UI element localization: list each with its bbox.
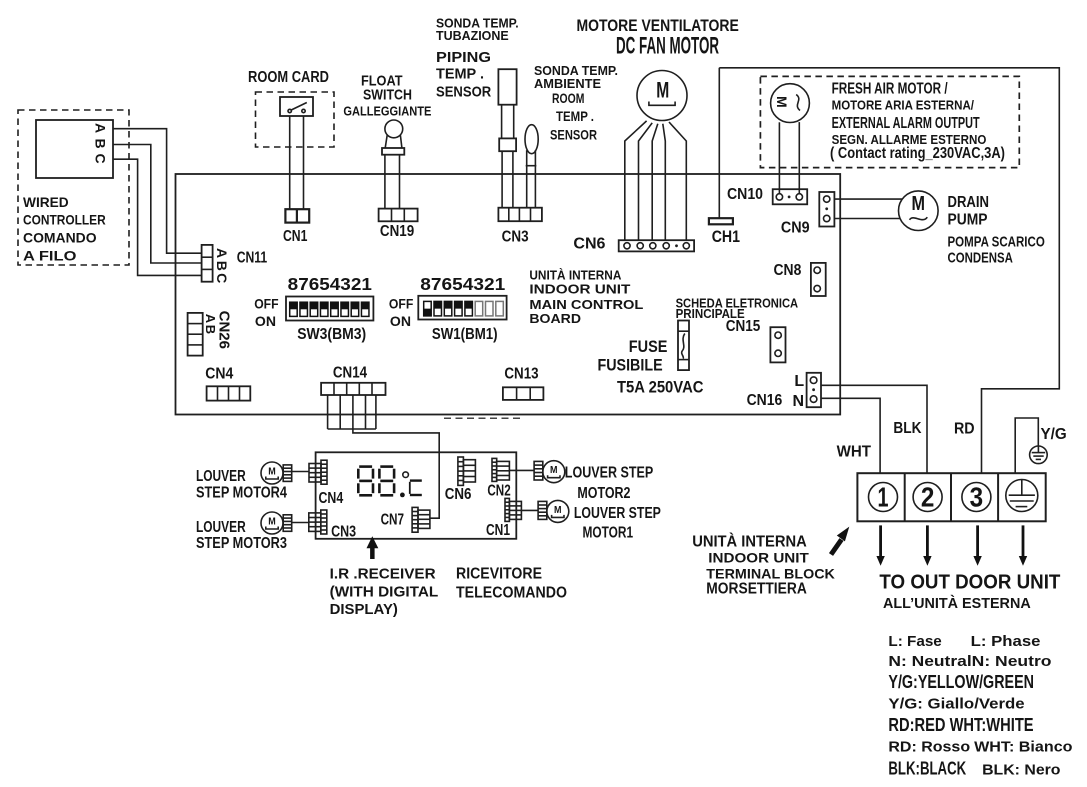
pin label A (controller): [92, 123, 108, 133]
svg-text:RICEVITORE: RICEVITORE: [456, 565, 542, 582]
svg-text:CN13: CN13: [504, 365, 538, 382]
svg-text:CONTROLLER: CONTROLLER: [23, 212, 106, 228]
degree symbol: [403, 472, 409, 478]
svg-text:FUSIBILE: FUSIBILE: [598, 357, 663, 375]
svg-text:A: A: [92, 123, 108, 133]
svg-text:PUMP: PUMP: [948, 212, 988, 229]
svg-text:UNITÀ INTERNA: UNITÀ INTERNA: [529, 268, 622, 283]
svg-text:CN1: CN1: [486, 522, 510, 539]
svg-text:(WITH DIGITAL: (WITH DIGITAL: [330, 583, 439, 600]
wire room sensor left to CN3: [526, 150, 528, 208]
connector CN19: [379, 209, 418, 222]
wire piping sensor right to CN3: [512, 151, 514, 208]
svg-text:AMBIENTE: AMBIENTE: [534, 76, 601, 91]
label CN4 (main board): [205, 366, 233, 383]
label WHT: [837, 443, 872, 460]
label I.R. RECEIVER (WITH DIGITAL DISPLAY): [330, 566, 439, 619]
svg-text:C: C: [92, 153, 108, 163]
label 87654321 (SW3): [288, 274, 372, 294]
label LOUVER STEP MOTOR3: [196, 519, 287, 552]
label ROOM CARD: [248, 69, 329, 86]
pin label B (CN11): [214, 261, 230, 271]
connector CN4 (display): [309, 460, 327, 484]
svg-text:BOARD: BOARD: [529, 311, 581, 326]
svg-text:CN4: CN4: [319, 490, 344, 507]
svg-text:CN6: CN6: [573, 236, 605, 253]
svg-text:3: 3: [970, 482, 984, 513]
svg-text:INDOOR UNIT: INDOOR UNIT: [708, 550, 809, 566]
label CN7: [381, 512, 404, 529]
svg-text:B: B: [92, 138, 108, 148]
svg-text:N: N: [793, 393, 805, 410]
svg-text:BLK: Nero: BLK: Nero: [982, 762, 1060, 779]
terminal 3: [962, 482, 991, 513]
switch contacts: [288, 103, 307, 113]
svg-text:CN19: CN19: [380, 223, 414, 240]
pin label C (CN11): [214, 273, 230, 283]
louver motor 3 comb: [283, 515, 292, 532]
svg-text:CN11: CN11: [237, 249, 268, 266]
ir receiver arrow: [367, 536, 379, 559]
wire C controller to CN11: [113, 159, 202, 275]
label ALL'UNITA ESTERNA: [883, 595, 1031, 612]
connector CN3: [498, 208, 542, 222]
connector CN9: [819, 192, 834, 227]
svg-text:SW1(BM1): SW1(BM1): [432, 326, 498, 343]
wire fan motor 4: [663, 124, 666, 241]
pin label C (controller): [92, 153, 108, 163]
svg-text:SENSOR: SENSOR: [436, 84, 491, 101]
connector CN14 lower comb: [328, 395, 376, 429]
label FUSE FUSIBILE T5A 250VAC: [598, 338, 704, 397]
label LOUVER STEP MOTOR4: [196, 468, 287, 502]
board label SCHEDA ELETRONICA PRINCIPALE: [676, 297, 799, 321]
dashed segment on board bottom edge: [444, 417, 522, 419]
legend Y/G Giallo/Verde: [888, 695, 1024, 712]
label SW3(BM3): [297, 326, 366, 343]
seven segment digit 2: [378, 465, 395, 496]
svg-text:87654321: 87654321: [288, 274, 372, 294]
thick pointer arrow to terminal block: [831, 527, 849, 555]
label BLK: [893, 420, 921, 437]
label CN14: [333, 364, 367, 381]
terminal 2: [913, 482, 942, 513]
svg-text:MOTOR2: MOTOR2: [577, 485, 630, 502]
louver step motor 3 circle: [261, 512, 283, 534]
label CN6 (main board): [573, 236, 605, 253]
louver step motor 2 circle: [543, 461, 565, 483]
svg-text:EXTERNAL ALARM OUTPUT: EXTERNAL ALARM OUTPUT: [832, 115, 980, 132]
svg-text:M: M: [912, 193, 926, 215]
label TO OUT DOOR UNIT: [879, 572, 1060, 594]
connector CN1: [285, 209, 309, 222]
wire float switch left to CN19: [384, 155, 386, 209]
legend L Fase / L Phase: [888, 633, 1040, 650]
svg-text:OFF: OFF: [254, 296, 279, 312]
terminal block outline: [857, 473, 1045, 521]
svg-text:STEP MOTOR4: STEP MOTOR4: [196, 485, 287, 502]
svg-text:ROOM: ROOM: [552, 90, 584, 106]
label FLOAT SWITCH GALLEGGIANTE: [343, 73, 431, 119]
label SONDA TEMP. TUBAZIONE PIPING TEMP. SENSOR: [436, 16, 519, 101]
label CN19: [380, 223, 414, 240]
svg-text:T5A 250VAC: T5A 250VAC: [617, 378, 704, 397]
svg-text:COMANDO: COMANDO: [23, 230, 97, 246]
arrow below terminal earth: [1019, 525, 1027, 565]
connector CN14: [321, 383, 385, 395]
arrow below terminal 2: [923, 525, 931, 565]
svg-text:INDOOR UNIT: INDOOR UNIT: [529, 282, 630, 297]
dip switch SW3(BM3): [286, 297, 373, 321]
svg-text:2: 2: [921, 482, 935, 513]
svg-text:ON: ON: [390, 313, 411, 329]
label CN1: [283, 228, 307, 245]
svg-text:TEMP .: TEMP .: [436, 66, 484, 83]
svg-text:CN3: CN3: [502, 229, 529, 246]
arrow below terminal 3: [973, 525, 981, 565]
svg-text:N: Neutral: N: Neutral: [888, 653, 971, 670]
legend N Neutral / N Neutro: [888, 653, 1051, 670]
svg-text:TO OUT DOOR UNIT: TO OUT DOOR UNIT: [879, 572, 1060, 594]
pin label N (CN16): [793, 393, 805, 410]
wired controller dashed box: [18, 110, 129, 265]
svg-text:DRAIN: DRAIN: [948, 194, 990, 211]
svg-text:CN15: CN15: [726, 318, 761, 335]
svg-text:FRESH AIR MOTOR /: FRESH AIR MOTOR /: [832, 81, 948, 98]
label CN6 (display): [445, 486, 472, 503]
svg-text:CN14: CN14: [333, 364, 367, 381]
label CN3 (display): [331, 523, 356, 540]
svg-text:SWITCH: SWITCH: [363, 87, 412, 104]
svg-text:L: L: [794, 373, 804, 390]
fuse symbol: [678, 321, 689, 371]
wire CN9 top to drain pump: [834, 198, 902, 200]
decimal dot: [400, 493, 405, 498]
wire B controller to CN11: [113, 145, 202, 264]
svg-text:M: M: [774, 96, 790, 108]
svg-text:BLK: BLK: [893, 420, 921, 437]
connector CN2 (display): [492, 458, 509, 481]
dc fan motor circle M: [637, 71, 687, 121]
louver motor 2 comb: [534, 461, 543, 480]
svg-text:ROOM CARD: ROOM CARD: [248, 69, 329, 86]
wire RD path to terminal 3: [719, 68, 1059, 473]
svg-text:I.R .RECEIVER: I.R .RECEIVER: [330, 566, 436, 583]
label CN10: [727, 186, 763, 203]
wire fan motor 2: [639, 123, 653, 240]
drain pump motor circle: [899, 191, 939, 231]
louver motor 4 comb: [283, 465, 292, 482]
connector CN8: [811, 263, 826, 296]
wire motor3 to CN3: [292, 522, 309, 524]
piping sensor collar: [499, 138, 516, 151]
label FRESH AIR MOTOR texts: [830, 81, 1005, 163]
legend RD RED WHT WHITE: [888, 715, 1033, 735]
svg-text:CN2: CN2: [487, 483, 510, 500]
label CN1 (display): [486, 522, 510, 539]
svg-text:ON: ON: [255, 313, 276, 329]
svg-text:M: M: [554, 504, 562, 516]
wire fresh air motor right to CN10: [798, 122, 800, 194]
wire L (BLK) to terminal 2: [821, 385, 927, 473]
label POMPA SCARICO CONDENSA: [948, 233, 1046, 266]
svg-text:RD: RD: [954, 421, 975, 438]
wire CN2 to motor2: [509, 469, 534, 471]
label CN16: [747, 392, 783, 409]
wire piping sensor left to CN3: [501, 151, 503, 208]
svg-text:CN26: CN26: [216, 311, 233, 349]
label UNITA INTERNA INDOOR UNIT TERMINAL BLOCK MORSETTIERA: [692, 534, 835, 598]
pin label A (CN11): [214, 248, 230, 258]
svg-text:CH1: CH1: [712, 227, 740, 246]
connector CN3 (display): [309, 510, 327, 534]
connector CN11: [202, 245, 213, 282]
svg-text:A: A: [214, 248, 230, 258]
wire CN1 to motor1: [521, 509, 538, 511]
indoor unit main control board outline: [176, 174, 841, 415]
svg-text:WIRED: WIRED: [23, 194, 69, 210]
connector CN1 (display): [505, 498, 521, 521]
segment letter C: [410, 481, 422, 495]
room sensor bulb: [525, 125, 538, 154]
svg-text:Y/G: Y/G: [1041, 426, 1067, 443]
svg-text:CN8: CN8: [774, 262, 802, 279]
svg-text:SENSOR: SENSOR: [550, 127, 597, 143]
room card switch body: [280, 97, 313, 116]
wire fan motor 5: [669, 122, 686, 240]
label LOUVER STEP MOTOR1: [574, 505, 661, 542]
svg-text:UNITÀ INTERNA: UNITÀ INTERNA: [692, 534, 807, 551]
label 87654321 (SW1): [420, 274, 505, 294]
label CN3: [502, 229, 529, 246]
label OFF ON (SW3): [254, 296, 279, 330]
label CN13: [504, 365, 538, 382]
label SW1(BM1): [432, 326, 498, 343]
float switch neck: [385, 135, 402, 148]
svg-text:M: M: [268, 516, 276, 528]
svg-text:LOUVER STEP: LOUVER STEP: [574, 505, 661, 522]
label Y/G: [1041, 426, 1067, 443]
earth symbol small: [1030, 446, 1048, 464]
svg-text:WHT: Bianco: WHT: Bianco: [974, 739, 1072, 756]
label SONDA TEMP. AMBIENTE ROOM TEMP. SENSOR: [534, 63, 618, 142]
svg-text:CN6: CN6: [445, 486, 472, 503]
connector CN6 (main board): [619, 240, 694, 251]
svg-text:CONDENSA: CONDENSA: [948, 249, 1014, 266]
wired controller body: [36, 120, 113, 178]
svg-text:M: M: [656, 78, 669, 103]
label RICEVITORE TELECOMANDO: [456, 565, 567, 601]
wire N (WHT) to terminal 1: [821, 398, 880, 473]
svg-text:LOUVER: LOUVER: [196, 519, 246, 536]
label CN9: [781, 220, 810, 237]
svg-text:OFF: OFF: [389, 296, 414, 312]
legend Y/G YELLOW/GREEN: [888, 672, 1034, 692]
svg-text:TERMINAL BLOCK: TERMINAL BLOCK: [706, 566, 835, 582]
label CH1: [712, 227, 740, 246]
wire CN14 to CN7: [353, 429, 439, 518]
svg-text:SW3(BM3): SW3(BM3): [297, 326, 366, 343]
svg-text:TELECOMANDO: TELECOMANDO: [456, 584, 567, 601]
label WIRED CONTROLLER COMANDO A FILO: [23, 194, 106, 264]
svg-text:DISPLAY): DISPLAY): [330, 601, 398, 618]
svg-text:CN3: CN3: [331, 523, 356, 540]
svg-text:TUBAZIONE: TUBAZIONE: [436, 28, 509, 43]
svg-text:B: B: [214, 261, 230, 271]
wire room card right to CN1: [303, 116, 305, 209]
label CN8: [774, 262, 802, 279]
label CN26 rotated: [216, 311, 233, 349]
pin label B (CN26): [203, 325, 218, 334]
label CN11: [237, 249, 268, 266]
louver step motor 4 circle: [261, 462, 283, 484]
svg-text:MOTOR1: MOTOR1: [583, 525, 634, 542]
terminal 1: [869, 482, 898, 513]
label LOUVER STEP MOTOR2: [565, 464, 654, 502]
label CN15: [726, 318, 761, 335]
svg-text:L: Phase: L: Phase: [971, 633, 1041, 650]
seven segment digit 1: [357, 465, 374, 496]
label OFF ON (SW1): [389, 296, 414, 330]
svg-text:ALL’UNITÀ ESTERNA: ALL’UNITÀ ESTERNA: [883, 595, 1031, 612]
legend BLK BLACK / BLK Nero: [888, 759, 1060, 779]
terminal earth symbol: [1006, 480, 1038, 512]
connector CN7 (display): [412, 507, 430, 532]
svg-text:MAIN CONTROL: MAIN CONTROL: [529, 297, 643, 312]
legend RD Rosso WHT Bianco: [888, 739, 1072, 756]
connector CN4 (main board): [207, 386, 251, 400]
svg-text:TEMP .: TEMP .: [556, 108, 594, 124]
svg-text:DC FAN MOTOR: DC FAN MOTOR: [616, 33, 719, 60]
arrow below terminal 1: [876, 525, 884, 565]
connector CN15: [770, 327, 785, 362]
svg-text:FUSE: FUSE: [629, 338, 668, 356]
component CH1 tab: [709, 218, 733, 224]
svg-text:1: 1: [878, 482, 889, 513]
svg-text:CN1: CN1: [283, 228, 307, 245]
float switch collar: [382, 148, 404, 155]
svg-text:M: M: [550, 464, 558, 476]
svg-text:Y/G:YELLOW/GREEN: Y/G:YELLOW/GREEN: [888, 672, 1034, 692]
svg-text:RD:RED WHT:WHITE: RD:RED WHT:WHITE: [888, 715, 1033, 735]
wire room sensor right to CN3: [534, 150, 536, 208]
louver motor 1 comb: [538, 501, 547, 519]
louver step motor 1 circle: [547, 500, 569, 522]
pin label A (CN26): [203, 314, 218, 324]
svg-text:CN9: CN9: [781, 220, 810, 237]
svg-text:L: Fase: L: Fase: [888, 633, 941, 650]
svg-text:RD: Rosso: RD: Rosso: [888, 739, 970, 756]
pin label L (CN16): [794, 373, 804, 390]
connector CN10: [773, 189, 808, 204]
wire motor4 to CN4: [292, 471, 309, 473]
room card dashed box: [256, 92, 335, 147]
wire CH1 vertical: [718, 68, 720, 218]
label CN2 (display): [487, 483, 510, 500]
label MOTORE VENTILATORE DC FAN MOTOR: [577, 17, 739, 60]
wire fan motor 1: [625, 121, 647, 240]
svg-text:PIPING: PIPING: [436, 49, 491, 66]
svg-text:CN10: CN10: [727, 186, 763, 203]
svg-text:CN7: CN7: [381, 512, 404, 529]
wire A controller to CN11: [113, 129, 202, 254]
svg-text:A FILO: A FILO: [23, 248, 77, 264]
svg-text:WHT: WHT: [837, 443, 872, 460]
svg-text:POMPA SCARICO: POMPA SCARICO: [948, 233, 1046, 250]
svg-text:LOUVER STEP: LOUVER STEP: [565, 464, 654, 481]
svg-text:Y/G: Giallo/Verde: Y/G: Giallo/Verde: [888, 695, 1024, 712]
svg-text:M: M: [268, 466, 276, 478]
svg-text:BLK:BLACK: BLK:BLACK: [888, 759, 966, 779]
wire Y/G hook: [1015, 418, 1038, 473]
svg-text:LOUVER: LOUVER: [196, 468, 246, 485]
wire room card left to CN1: [289, 116, 291, 209]
label CN4 (display): [319, 490, 344, 507]
svg-text:N: Neutro: N: Neutro: [972, 653, 1052, 670]
svg-text:C: C: [214, 273, 230, 283]
svg-text:MOTORE ARIA ESTERNA/: MOTORE ARIA ESTERNA/: [832, 98, 975, 113]
svg-text:CN4: CN4: [205, 366, 233, 383]
svg-text:87654321: 87654321: [420, 274, 505, 294]
connector CN13: [503, 387, 544, 400]
float switch ball: [385, 120, 403, 138]
svg-text:CN16: CN16: [747, 392, 783, 409]
wire fresh air motor left to CN10: [778, 122, 780, 193]
pin label B (controller): [92, 138, 108, 148]
wire fan motor 3: [652, 124, 658, 241]
svg-text:GALLEGGIANTE: GALLEGGIANTE: [343, 103, 431, 118]
connector CN16: [807, 373, 821, 407]
svg-text:MORSETTIERA: MORSETTIERA: [706, 581, 807, 598]
fresh air motor circle: [771, 84, 810, 123]
piping sensor body: [498, 69, 516, 105]
piping sensor stem: [502, 105, 514, 139]
svg-text:STEP MOTOR3: STEP MOTOR3: [196, 535, 287, 552]
wire float switch right to CN19: [399, 155, 401, 209]
board label UNITA INTERNA INDOOR UNIT MAIN CONTROL BOARD: [529, 268, 643, 327]
connector CN26: [188, 313, 203, 356]
label RD: [954, 421, 975, 438]
wire CN9 bottom to drain pump: [834, 218, 900, 220]
label DRAIN PUMP: [948, 194, 990, 229]
room sensor lead tick: [526, 165, 537, 167]
connector CN6 (display): [458, 457, 476, 485]
fresh air dashed box: [760, 76, 1019, 167]
dip switch SW1(BM1): [418, 296, 506, 320]
svg-text:( Contact rating_230VAC,3A): ( Contact rating_230VAC,3A): [830, 145, 1005, 162]
display board outline: [316, 452, 517, 539]
